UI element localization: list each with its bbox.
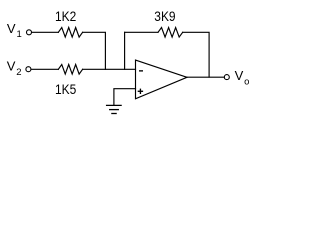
svg-text:1K2: 1K2 <box>55 8 76 24</box>
svg-text:1K5: 1K5 <box>55 81 76 97</box>
resistor R2 1K5 <box>58 65 82 75</box>
svg-text:V: V <box>7 21 16 36</box>
wire V1 to R1 <box>32 31 58 33</box>
resistor R1 1K2 <box>58 28 82 38</box>
op-amp minus sign <box>139 70 143 71</box>
op-amp plus sign <box>138 89 143 94</box>
svg-text:2: 2 <box>16 67 21 78</box>
svg-text:3K9: 3K9 <box>154 8 175 24</box>
op-amp U1 triangle <box>136 60 188 99</box>
terminal V1 <box>27 30 32 35</box>
wire R3 to feedback right corner and down to output <box>183 32 209 77</box>
wire op-amp output <box>187 76 225 78</box>
svg-text:V: V <box>235 68 244 83</box>
resistor R3 3K9 <box>158 28 183 38</box>
svg-text:V: V <box>7 59 16 74</box>
terminal Vo <box>224 75 229 80</box>
svg-text:o: o <box>244 76 249 87</box>
wire R1 to junction (corner down) <box>83 32 106 69</box>
wire non-inverting input to ground <box>114 89 136 105</box>
svg-text:1: 1 <box>17 29 22 40</box>
terminal V2 <box>26 67 31 72</box>
wire feedback left vertical (node to 3K9) <box>124 32 126 69</box>
wire node to R3 <box>125 31 158 33</box>
ground <box>107 105 122 113</box>
wire R2 to op-amp inverting input <box>83 68 136 70</box>
wire V2 to R2 <box>31 68 58 70</box>
